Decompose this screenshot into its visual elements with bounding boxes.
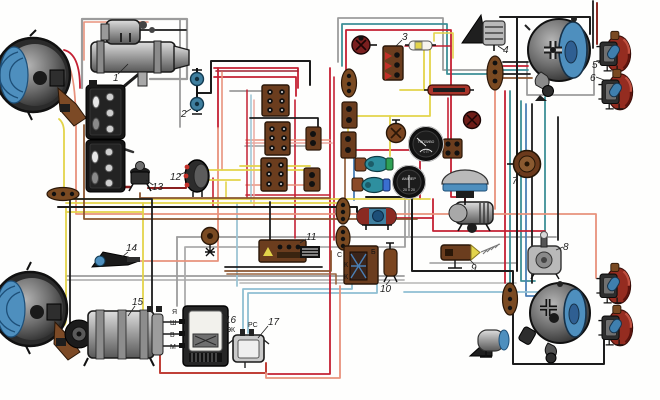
fuel gauge: [409, 127, 444, 162]
wire red x247: [246, 90, 248, 199]
wire grey y263: [430, 262, 516, 264]
wire teal from connector down: [509, 91, 511, 284]
wire red terminal block row 1: [214, 68, 298, 88]
wire salmon vertical x222: [221, 72, 223, 170]
distributor: [449, 202, 493, 233]
wire black x517 down: [516, 62, 518, 271]
wire red top bundle to distributor: [346, 30, 465, 203]
wire black y202 to coil: [58, 207, 357, 212]
wire black generator to regulator stub 3: [160, 345, 183, 347]
svg-text:РС: РС: [248, 322, 258, 329]
wire grey horizontal y276: [66, 275, 404, 277]
svg-text:М: М: [170, 344, 176, 351]
svg-text:6: 6: [590, 73, 596, 84]
wire yellow headlamp long down: [59, 119, 430, 199]
cigarette lighter: [387, 120, 406, 143]
label 3: [396, 40, 402, 46]
wire salmon right column: [494, 91, 496, 209]
buzzer 7: [507, 151, 541, 178]
wire teal top bundle: [342, 24, 488, 74]
connector block center column 1: [342, 102, 357, 128]
fuse block 11: [259, 240, 320, 262]
wire brown filter long: [140, 193, 330, 198]
svg-text:15: 15: [132, 297, 144, 308]
wire red long vertical to relay base: [268, 68, 330, 374]
svg-text:В: В: [170, 332, 175, 339]
wire red gauge down: [419, 160, 421, 199]
label 12: [179, 172, 186, 175]
portable lamp 9: [441, 244, 500, 268]
headlamp right: [525, 16, 590, 101]
oval connector under battery: [47, 188, 79, 201]
tail lamp lower right 1: [596, 263, 630, 304]
generator 15: [65, 306, 163, 366]
svg-text:13: 13: [152, 182, 164, 193]
starter motor 1: [91, 20, 189, 86]
svg-text:Ш: Ш: [170, 320, 176, 327]
wire red coil to junction: [394, 217, 433, 219]
wire yellow x348 down: [347, 116, 349, 158]
svg-text:2: 2: [180, 109, 187, 120]
wire pink x254: [253, 100, 255, 207]
wire crimson generator loop: [160, 346, 266, 373]
svg-text:1: 1: [113, 73, 119, 84]
wire brown connector to right headlamp: [503, 77, 532, 79]
svg-text:8: 8: [563, 242, 569, 253]
svg-text:20 0 20: 20 0 20: [403, 188, 415, 192]
wire yellow y203: [66, 202, 340, 204]
battery lower: [86, 140, 125, 192]
svg-text:11: 11: [306, 232, 316, 243]
wire yellow to toggle: [389, 116, 391, 156]
tail lamp lower right 2: [598, 305, 632, 346]
wire grey vertical to regulator 2: [184, 247, 186, 306]
starter switch 17: [226, 322, 269, 368]
wire brown gauge vertical: [344, 158, 346, 205]
svg-text:16: 16: [225, 315, 237, 326]
wire salmon inner starter loop: [84, 22, 148, 60]
wire salmon bottom to relay: [266, 286, 340, 378]
wire black y199 to generator: [70, 199, 152, 310]
wire red gauges horizontal: [352, 149, 417, 151]
ignition coil: [357, 208, 396, 230]
wire yellow fuse down: [423, 50, 425, 90]
wire grey y146: [245, 145, 310, 147]
wire black x558 to switch8: [557, 117, 559, 240]
wire black socket to blocks: [198, 61, 310, 93]
label 1: [118, 64, 128, 74]
tail lamp 6: [598, 69, 632, 110]
svg-text:Я: Я: [172, 309, 177, 316]
wire black long to lower right loop: [366, 197, 604, 364]
cab boat lamp: [442, 170, 488, 205]
wire yellow to generator: [142, 203, 144, 314]
ammeter: [393, 166, 426, 199]
wire red over right lamps: [596, 3, 598, 44]
wire black generator to regulator stub 2: [160, 333, 183, 335]
label 7: [516, 172, 520, 177]
wire grey long horizontal y235: [177, 236, 556, 238]
wire yellow y90: [400, 89, 428, 91]
wire black solenoid stub: [140, 29, 186, 31]
oval connector center lower 1: [336, 198, 350, 224]
wire dark red filter to relay: [148, 180, 186, 188]
wire teal connector to right headlamp: [503, 69, 528, 71]
horn relay 12: [184, 160, 209, 197]
fuel filter 13: [129, 162, 151, 192]
wire black x532 to searchlight: [531, 104, 533, 283]
toggle switch upper: [355, 157, 393, 172]
wire yellow y170: [206, 169, 312, 171]
wire black frame left vertical: [516, 17, 518, 62]
wire blue relay loop: [356, 255, 377, 283]
svg-text:ТОПЛИВО: ТОПЛИВО: [418, 140, 435, 144]
horn button: [352, 35, 377, 54]
svg-text:3: 3: [402, 32, 408, 43]
oval connector right bottom: [503, 283, 518, 315]
terminal block C: [261, 158, 287, 191]
wire red terminal block row 3: [214, 77, 296, 96]
terminal block B: [265, 122, 290, 155]
label 16: [222, 313, 228, 318]
wire grey horizontal y280: [66, 279, 404, 281]
svg-text:12: 12: [170, 172, 182, 183]
wire black to fuse block 11: [269, 202, 271, 240]
label 14: [122, 252, 128, 257]
wire brown y274: [227, 274, 336, 284]
wire salmon y185: [246, 184, 304, 186]
wire cyan horizontal right: [404, 291, 548, 293]
label 4: [498, 46, 504, 50]
label 11: [300, 239, 306, 243]
connector block center column 2: [341, 132, 356, 158]
svg-text:10: 10: [380, 284, 392, 295]
label 17: [258, 326, 268, 338]
wire dark red battery cable: [92, 186, 130, 189]
wire black battery to starter cable: [122, 73, 140, 88]
svg-text:9: 9: [471, 263, 477, 274]
wire black connector to right headlamp 2: [503, 73, 530, 75]
oval connector center column: [342, 69, 357, 97]
wire black top right frame: [500, 17, 590, 34]
fuse: [405, 41, 436, 50]
wire blue gauge vertical: [353, 142, 355, 200]
svg-text:Б: Б: [371, 249, 376, 256]
wire grey loop under right headlamp: [527, 62, 594, 95]
svg-text:0 П: 0 П: [424, 150, 430, 154]
searchlight: [518, 281, 590, 363]
headlamp left bottom: [0, 262, 80, 360]
toggle switch lower: [352, 178, 390, 193]
wire salmon headlamp down right side long: [61, 57, 596, 278]
headlamp left top: [0, 30, 86, 126]
svg-text:ЭК: ЭК: [226, 327, 236, 334]
wire black blocks y118: [250, 118, 318, 128]
connector block mid right: [443, 139, 462, 158]
wire black to lower headlamp: [64, 199, 70, 352]
wire grey vertical to regulator: [176, 237, 178, 306]
wire grey stub to terminal block: [230, 90, 263, 92]
label 13: [146, 180, 153, 185]
wire grey y283: [240, 282, 516, 284]
knob switch: [464, 112, 481, 129]
wire cyan to relay terminal EK: [243, 257, 352, 333]
wire red junction to distributor: [433, 199, 545, 245]
wire black y267: [225, 266, 322, 268]
wire yellow y212: [66, 211, 143, 213]
brake switch 8: [528, 232, 561, 280]
label 9: [470, 260, 474, 264]
wire black battery jumper: [100, 141, 133, 152]
wire red connector to right headlamp: [503, 65, 528, 67]
wire grey top bundle: [338, 18, 488, 70]
heater resistor bar: [424, 85, 474, 95]
wire red headlamp to battery: [64, 50, 80, 88]
small connector right lower: [304, 168, 320, 191]
wire teal to searchlight: [521, 101, 535, 281]
small connector right upper: [306, 127, 321, 150]
wire grey vertical x180: [179, 19, 181, 127]
label 15: [128, 306, 135, 316]
label 10: [386, 280, 390, 285]
svg-text:С: С: [337, 252, 342, 259]
oval connector center lower 2: [336, 226, 350, 250]
battery upper: [86, 80, 125, 139]
wire grey vertical near distributor: [404, 197, 406, 247]
resistor 10: [384, 243, 397, 282]
voltage regulator 16: [170, 306, 228, 366]
wire salmon lamp14 up: [138, 128, 218, 261]
wire red vertical x295: [294, 100, 296, 238]
wire blue to searchlight: [526, 104, 536, 296]
wire black connector to right headlamp: [503, 61, 528, 63]
svg-text:14: 14: [126, 243, 138, 254]
svg-text:4: 4: [503, 45, 509, 56]
wire yellow fuse jog: [434, 33, 453, 58]
wire pink y140: [246, 139, 330, 141]
wire red y195: [246, 194, 330, 196]
pilot lamp 14: [92, 252, 140, 267]
label 2: [186, 109, 191, 112]
svg-text:АМПЕР: АМПЕР: [402, 176, 417, 181]
wire red terminal block row 2: [216, 70, 298, 72]
wire red to mid connector: [447, 98, 449, 139]
wire red horn relay down: [212, 178, 214, 207]
wire red right column: [504, 91, 506, 283]
wire brown y271: [225, 251, 331, 271]
wire yellow y166: [240, 165, 310, 167]
wire light blue x251: [250, 95, 252, 203]
oval connector right top: [487, 56, 503, 90]
tail lamp 5: [596, 31, 630, 72]
wire pink y143: [246, 142, 332, 144]
light switch 3: [383, 46, 403, 80]
wire teal right vertical to lamp switch: [544, 97, 546, 240]
cab lamp 4: [462, 15, 505, 51]
wire yellow switch feed: [348, 47, 430, 116]
wire brown headlamp down to coil: [84, 125, 417, 219]
terminal block A: [262, 85, 289, 116]
trailer socket: [202, 228, 219, 257]
wire yellow horn relay: [208, 179, 240, 181]
wire grey horizontal y247: [186, 246, 404, 248]
wire red switch3 to bundle: [405, 45, 451, 47]
wire grey harness loop around starter: [82, 19, 187, 88]
wire black to top edge: [592, 1, 594, 48]
socket connector 2: [191, 68, 204, 114]
wire red vertical x334: [333, 77, 335, 240]
svg-text:7: 7: [512, 176, 518, 187]
wire grey vertical near distributor 2: [408, 197, 410, 237]
wire red vertical x218: [217, 68, 219, 128]
number plate lamp: [470, 330, 509, 357]
wire light blue vertical center: [236, 203, 238, 286]
starter relay: [337, 246, 378, 284]
svg-text:17: 17: [268, 317, 280, 328]
label 8: [556, 247, 563, 250]
wire yellow horn relay down: [225, 182, 227, 199]
wire cyan to relay terminal RS: [248, 283, 377, 333]
wire yellow to lower headlamp: [60, 207, 66, 328]
wire black generator to regulator stub 1: [160, 321, 183, 323]
